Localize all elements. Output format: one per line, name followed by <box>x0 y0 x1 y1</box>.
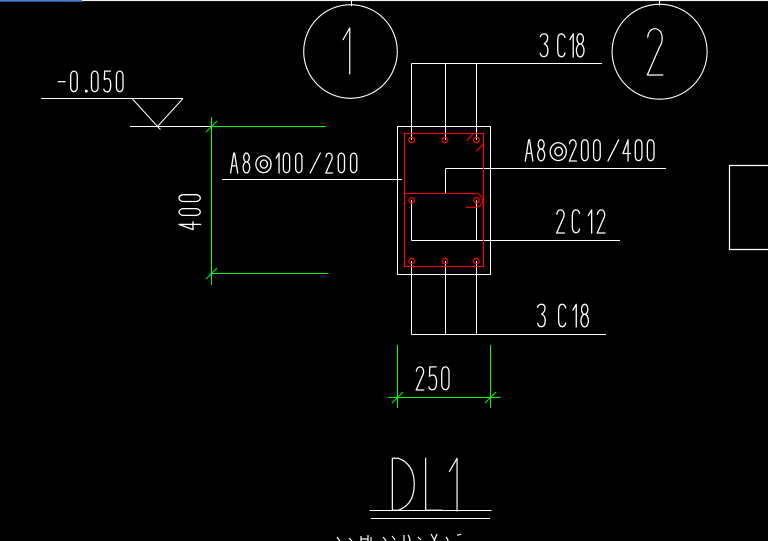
bottom rebar line c <box>476 261 478 335</box>
leader 2C12 <box>412 240 621 242</box>
dimension 400 label <box>179 195 201 230</box>
dimension 250 right tick <box>485 392 496 403</box>
grid bubble 2 circle <box>612 4 707 99</box>
rebar dot 5 <box>474 198 480 204</box>
dimension 400 top tick <box>206 121 217 132</box>
dimension 250 label <box>416 367 449 390</box>
grid bubble 2 top tick <box>659 0 661 6</box>
rebar dot 3 <box>474 137 480 143</box>
right edge rectangle <box>730 166 768 250</box>
stirrup middle with hook <box>405 194 483 208</box>
dimension 250 line <box>388 397 501 399</box>
elevation lower line <box>130 126 212 128</box>
elevation apex tail <box>158 127 161 130</box>
top browser strip white <box>82 0 768 1</box>
rebar dot 8 <box>474 258 480 264</box>
rebar dot 2 <box>442 137 448 143</box>
text 3C18 top <box>540 34 584 57</box>
title DL1 digit 1 <box>449 458 457 511</box>
title underline 2 <box>371 518 490 520</box>
dimension 400 bottom tick <box>206 268 217 279</box>
dimension 250 right extension <box>490 345 492 408</box>
text A8@100/200 <box>231 153 357 173</box>
title underline 1 <box>370 510 492 512</box>
top browser strip blue <box>0 0 82 2</box>
dimension 400 top extension <box>212 126 327 128</box>
bottom rebar line b <box>445 261 447 335</box>
grid bubble 1 label "1" <box>343 28 350 74</box>
dimension 250 left extension <box>397 345 399 408</box>
top rebar line c <box>476 64 478 141</box>
title DL1 <box>392 458 414 510</box>
stirrup rectangle <box>405 134 484 267</box>
elevation triangle <box>132 99 183 127</box>
top rebar line a <box>411 64 413 141</box>
bottom clipped caption strokes <box>337 534 461 541</box>
elevation upper line <box>41 98 183 100</box>
title DL1 letter L <box>426 458 442 510</box>
rebar dot 6 <box>409 258 415 264</box>
elevation text -0.050 <box>58 71 123 92</box>
top rebar line b <box>445 64 447 141</box>
stirrup hook diagonal b <box>476 144 483 151</box>
leader A8@100/200 <box>222 179 402 181</box>
leader 3C18 top <box>412 63 603 65</box>
text 2C12 <box>557 210 605 233</box>
grid bubble 1 top tick <box>351 0 353 6</box>
rebar dot 1 <box>409 137 415 143</box>
dimension 400 bottom extension <box>212 273 329 275</box>
dimension 250 left tick <box>392 392 403 403</box>
leader A8@200/400 drop <box>445 169 447 194</box>
rebar dot 4 <box>409 198 415 204</box>
stirrup hook diagonal a <box>466 134 473 141</box>
bottom rebar line a <box>411 261 413 335</box>
grid bubble 2 label "2" <box>647 29 662 75</box>
leader 3C18 bottom <box>412 334 607 336</box>
grid bubble 1 circle <box>304 5 398 99</box>
text 3C18 bottom <box>538 304 589 327</box>
text A8@200/400 <box>525 140 654 161</box>
middle rebar drop a <box>411 200 413 240</box>
leader A8@200/400 <box>446 168 667 170</box>
rebar dot 7 <box>442 258 448 264</box>
dimension 400 line <box>211 117 213 285</box>
column outline rectangle <box>398 127 491 275</box>
middle rebar drop b <box>476 200 478 240</box>
